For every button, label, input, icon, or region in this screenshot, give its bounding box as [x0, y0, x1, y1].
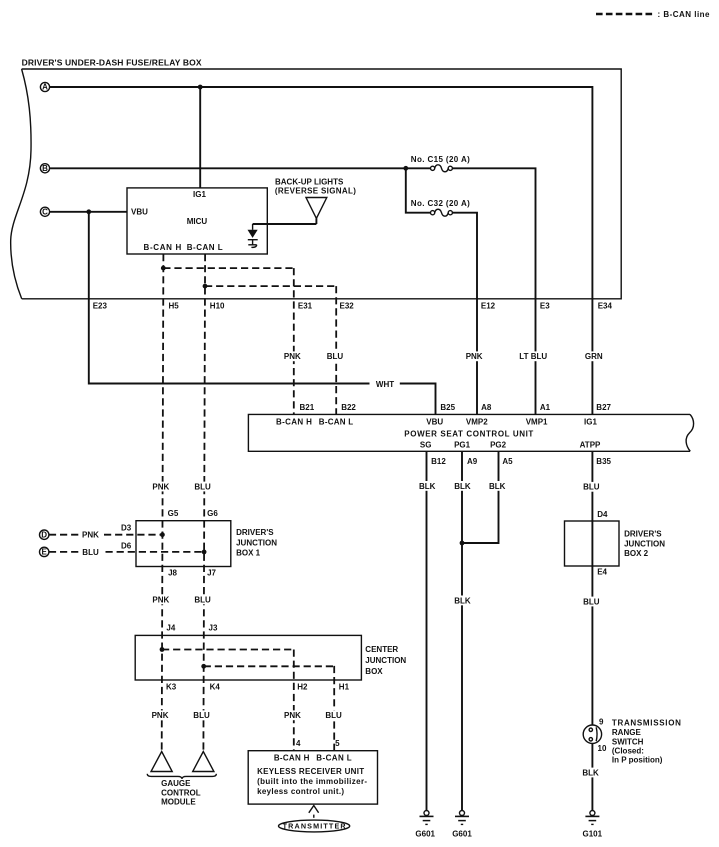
- svg-text:BLU: BLU: [583, 597, 600, 606]
- svg-text:BLU: BLU: [327, 352, 344, 361]
- svg-text:DRIVER'S: DRIVER'S: [624, 529, 662, 538]
- svg-text:DRIVER'S: DRIVER'S: [236, 528, 274, 537]
- svg-text:BLK: BLK: [454, 596, 471, 605]
- svg-text:E34: E34: [598, 301, 613, 310]
- svg-text:E12: E12: [481, 302, 496, 311]
- svg-text:GRN: GRN: [585, 352, 603, 361]
- svg-text:(built into the immobilizer-: (built into the immobilizer-: [257, 777, 367, 786]
- svg-text:B-CAN L: B-CAN L: [319, 417, 354, 426]
- svg-text:G601: G601: [415, 829, 435, 838]
- svg-text:J4: J4: [166, 624, 175, 633]
- svg-text:JUNCTION: JUNCTION: [236, 539, 277, 548]
- svg-text:10: 10: [598, 744, 607, 753]
- svg-text:D3: D3: [121, 523, 132, 532]
- svg-text:BLU: BLU: [194, 482, 211, 491]
- svg-text:BLU: BLU: [583, 483, 600, 492]
- svg-text:(REVERSE SIGNAL): (REVERSE SIGNAL): [275, 186, 356, 195]
- svg-text:G601: G601: [452, 829, 472, 838]
- svg-text:E32: E32: [340, 301, 355, 310]
- svg-text:H5: H5: [169, 301, 180, 310]
- svg-text:B: B: [42, 164, 48, 173]
- svg-text:VBU: VBU: [131, 208, 148, 217]
- svg-text:No. C15 (20 A): No. C15 (20 A): [411, 155, 470, 164]
- svg-text:B22: B22: [341, 403, 356, 412]
- svg-text:B-CAN H: B-CAN H: [274, 753, 310, 762]
- svg-text:E: E: [42, 548, 48, 557]
- svg-text:No. C32 (20 A): No. C32 (20 A): [411, 199, 470, 208]
- svg-text:9: 9: [599, 718, 604, 727]
- svg-text:VMP1: VMP1: [526, 417, 548, 426]
- svg-text:PG1: PG1: [454, 440, 471, 449]
- svg-text:H1: H1: [339, 682, 350, 691]
- svg-text:PNK: PNK: [82, 531, 99, 540]
- svg-text:CENTER: CENTER: [365, 645, 398, 654]
- svg-text:CONTROL: CONTROL: [161, 789, 201, 798]
- svg-text:BACK-UP LIGHTS: BACK-UP LIGHTS: [275, 178, 344, 187]
- svg-text:H2: H2: [297, 682, 308, 691]
- svg-text:VMP2: VMP2: [466, 417, 488, 426]
- svg-text:B-CAN L: B-CAN L: [316, 753, 352, 762]
- svg-text:VBU: VBU: [426, 417, 443, 426]
- svg-text:B27: B27: [596, 403, 611, 412]
- svg-text:BLU: BLU: [193, 711, 210, 720]
- svg-text:IG1: IG1: [584, 417, 597, 426]
- svg-text:A8: A8: [481, 403, 492, 412]
- svg-text:BLU: BLU: [325, 711, 342, 720]
- svg-text:PNK: PNK: [152, 711, 169, 720]
- svg-text:A5: A5: [502, 457, 513, 466]
- svg-text:B-CAN L: B-CAN L: [187, 243, 223, 252]
- svg-text:D6: D6: [121, 541, 132, 550]
- svg-text:PNK: PNK: [152, 482, 169, 491]
- svg-text:C: C: [42, 207, 48, 216]
- svg-text:PG2: PG2: [490, 440, 507, 449]
- svg-text:E4: E4: [597, 568, 607, 577]
- svg-text:In P position): In P position): [612, 756, 663, 765]
- svg-text:4: 4: [296, 739, 301, 748]
- svg-text:K4: K4: [210, 682, 221, 691]
- svg-text:BOX: BOX: [365, 667, 383, 676]
- svg-text:WHT: WHT: [376, 380, 394, 389]
- svg-text:A: A: [42, 83, 48, 92]
- svg-text:LT BLU: LT BLU: [519, 352, 547, 361]
- svg-text:J7: J7: [207, 569, 216, 578]
- svg-text:IG1: IG1: [193, 190, 206, 199]
- svg-text:RANGE: RANGE: [612, 728, 642, 737]
- svg-text:SWITCH: SWITCH: [612, 738, 644, 747]
- svg-text:E31: E31: [298, 301, 313, 310]
- svg-text:PNK: PNK: [284, 711, 301, 720]
- svg-text:E3: E3: [540, 302, 550, 311]
- svg-text:DRIVER'S UNDER-DASH FUSE/RELAY: DRIVER'S UNDER-DASH FUSE/RELAY BOX: [22, 57, 202, 67]
- svg-text:BLK: BLK: [454, 482, 471, 491]
- svg-text:JUNCTION: JUNCTION: [365, 656, 406, 665]
- svg-text:ATPP: ATPP: [580, 440, 601, 449]
- svg-text:POWER SEAT CONTROL UNIT: POWER SEAT CONTROL UNIT: [404, 430, 533, 439]
- svg-text:MODULE: MODULE: [161, 797, 196, 806]
- svg-text:BOX 1: BOX 1: [236, 549, 261, 558]
- svg-text:G5: G5: [168, 509, 179, 518]
- svg-text:B21: B21: [300, 403, 315, 412]
- svg-text:G101: G101: [583, 829, 603, 838]
- svg-text:BLK: BLK: [419, 482, 436, 491]
- svg-text:: B-CAN line: : B-CAN line: [658, 10, 711, 19]
- svg-text:J8: J8: [168, 569, 177, 578]
- svg-text:BLU: BLU: [82, 548, 99, 557]
- svg-text:PNK: PNK: [284, 352, 301, 361]
- svg-text:B12: B12: [431, 457, 446, 466]
- svg-text:K3: K3: [166, 682, 177, 691]
- svg-text:PNK: PNK: [152, 595, 169, 604]
- svg-text:MICU: MICU: [187, 217, 208, 226]
- svg-text:GAUGE: GAUGE: [161, 779, 191, 788]
- svg-text:TRANSMISSION: TRANSMISSION: [612, 718, 681, 727]
- svg-text:KEYLESS RECEIVER UNIT: KEYLESS RECEIVER UNIT: [257, 767, 364, 776]
- svg-text:A9: A9: [467, 457, 478, 466]
- svg-text:E23: E23: [93, 301, 108, 310]
- svg-text:keyless control unit.): keyless control unit.): [257, 787, 344, 796]
- svg-text:JUNCTION: JUNCTION: [624, 540, 665, 549]
- svg-text:TRANSMITTER: TRANSMITTER: [283, 822, 347, 831]
- svg-text:B-CAN H: B-CAN H: [144, 243, 182, 252]
- svg-text:BLU: BLU: [194, 595, 211, 604]
- svg-text:G6: G6: [207, 509, 218, 518]
- svg-text:PNK: PNK: [466, 352, 483, 361]
- svg-text:J3: J3: [209, 624, 218, 633]
- svg-text:BOX 2: BOX 2: [624, 549, 649, 558]
- svg-text:B25: B25: [440, 403, 455, 412]
- svg-text:H10: H10: [210, 301, 225, 310]
- svg-text:5: 5: [335, 739, 340, 748]
- svg-text:A1: A1: [540, 403, 551, 412]
- svg-text:D4: D4: [597, 510, 608, 519]
- svg-text:B35: B35: [596, 457, 611, 466]
- svg-text:SG: SG: [420, 440, 432, 449]
- svg-text:BLK: BLK: [489, 482, 506, 491]
- svg-text:B-CAN H: B-CAN H: [276, 417, 312, 426]
- svg-text:(Closed:: (Closed:: [612, 747, 644, 756]
- svg-text:BLK: BLK: [582, 768, 599, 777]
- svg-text:D: D: [41, 530, 47, 539]
